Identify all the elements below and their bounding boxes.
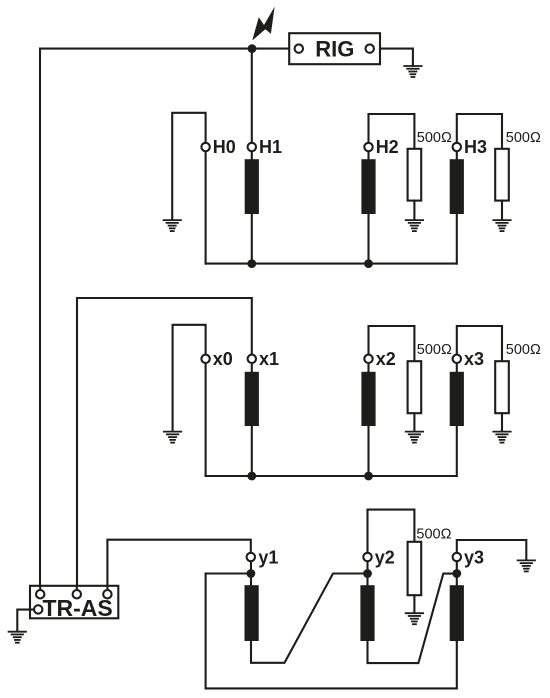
wire: x2 bracket to resistor: [369, 326, 415, 362]
ground: H2 resistor: [406, 220, 423, 231]
winding y2: [360, 585, 374, 641]
terminal: RIG left: [295, 44, 303, 52]
wire: y2 lead and delta link to y3: [368, 561, 453, 663]
node: y3 top: [452, 569, 461, 578]
terminal y3: [453, 553, 461, 561]
resistor 500R (x3): [495, 361, 509, 413]
ground: H3 resistor: [493, 220, 510, 231]
wire: x1 winding lead: [251, 363, 253, 476]
wire: x3 winding lead and bus riser: [456, 363, 458, 476]
wire: x2 winding lead: [367, 363, 369, 476]
wire: y2 bracket to resistor: [368, 510, 415, 543]
wire: x3 bracket to resistor: [457, 326, 502, 362]
wire: x0 bracket to ground: [173, 325, 206, 431]
wire: left riser down to bottom bus: [205, 574, 207, 689]
winding y1: [245, 585, 259, 641]
node: H1 on H bus: [247, 259, 256, 268]
svg-text:y1: y1: [258, 547, 278, 567]
svg-text:500Ω: 500Ω: [416, 527, 451, 543]
ground: x2 resistor: [406, 432, 423, 443]
terminal H2: [364, 143, 372, 151]
svg-text:y3: y3: [464, 547, 484, 567]
resistor 500R (H2): [408, 149, 422, 201]
resistor 500R (x2): [408, 361, 422, 413]
terminal x3: [453, 355, 461, 363]
svg-text:RIG: RIG: [315, 36, 354, 61]
winding x3: [450, 372, 464, 426]
resistor 500R (H3): [495, 149, 509, 201]
terminal H0: [201, 143, 209, 151]
svg-text:x2: x2: [376, 349, 396, 369]
wire: TR-AS left terminal to ground: [17, 610, 35, 631]
wire: x2 resistor to ground: [413, 413, 415, 431]
wire: y2 resistor to ground: [413, 595, 415, 612]
box TR-AS: [30, 586, 118, 619]
ground: x0: [164, 432, 181, 443]
node: x1 on x bus: [247, 472, 256, 481]
node: H2 on H bus: [364, 259, 373, 268]
ground: y2 resistor: [406, 613, 423, 624]
wire: y3 to ground: [457, 540, 527, 560]
svg-text:x0: x0: [213, 349, 233, 369]
terminal: TR-AS 2: [73, 590, 81, 598]
ground: y3: [518, 560, 535, 571]
wire: surge node down to H1: [251, 49, 253, 143]
wire: H0 down to H bus: [205, 151, 207, 264]
terminal: TR-AS 1: [36, 590, 44, 598]
wire: y2 up to bracket: [366, 510, 368, 553]
node: x2 on x bus: [364, 472, 373, 481]
lightning bolt (surge symbol): [252, 7, 274, 41]
winding y3: [450, 585, 464, 641]
wire: H2 bracket to resistor: [369, 114, 415, 149]
wire: H1 winding lead: [251, 151, 253, 264]
svg-text:500Ω: 500Ω: [417, 342, 452, 358]
wire: y1 lead and delta link to y2: [251, 561, 363, 663]
wire: rail1 into TR-AS terminal 1: [39, 586, 41, 592]
wire: H3 bracket to resistor: [457, 114, 502, 149]
svg-text:500Ω: 500Ω: [417, 130, 452, 146]
svg-text:x3: x3: [464, 349, 484, 369]
wire: H row common bus: [206, 263, 457, 265]
node: surge injection junction: [248, 44, 257, 53]
terminal: TR-AS left: [34, 605, 42, 613]
ground: H0: [164, 220, 181, 231]
wire: left rail 2 and x1 feeder: [77, 298, 252, 589]
wire: y1 node to left riser: [206, 572, 251, 574]
wire: H2 winding lead: [367, 151, 369, 264]
terminal: TR-AS 3: [103, 590, 111, 598]
resistor 500R (y2): [408, 542, 422, 595]
wire: x0 down to x bus: [205, 363, 207, 476]
svg-text:x1: x1: [259, 349, 279, 369]
wire: left rail 1 from TR-AS up and top feeder to RIG: [40, 49, 289, 591]
svg-text:H3: H3: [464, 137, 487, 157]
winding H3: [450, 159, 464, 214]
wire: H3 winding lead and bus riser: [456, 151, 458, 264]
terminal y1: [247, 553, 255, 561]
wire: TR-AS terminal 3 to y1: [107, 540, 250, 590]
terminal H1: [248, 143, 256, 151]
terminal H3: [453, 143, 461, 151]
winding H2: [361, 159, 375, 214]
wire: H0 bracket to ground: [172, 113, 205, 220]
wire: x3 resistor to ground: [501, 413, 503, 431]
svg-text:500Ω: 500Ω: [506, 342, 541, 358]
terminal: RIG right: [366, 44, 374, 52]
svg-text:y2: y2: [375, 547, 395, 567]
terminal x2: [364, 355, 372, 363]
wire: y3 winding lead: [456, 561, 458, 641]
wire: y3 bottom around to y1 (bottom bus): [206, 641, 457, 688]
box RIG: [289, 33, 380, 64]
winding H1: [245, 159, 259, 214]
svg-text:H0: H0: [213, 137, 236, 157]
node: y1 top: [247, 569, 256, 578]
wire: x row common bus: [206, 475, 457, 477]
winding x1: [245, 372, 259, 426]
terminal x0: [201, 355, 209, 363]
terminal x1: [248, 355, 256, 363]
wire: RIG to ground: [380, 49, 413, 66]
terminal y2: [363, 553, 371, 561]
svg-text:H2: H2: [376, 137, 399, 157]
ground: RIG right: [404, 66, 421, 77]
node: y2 top: [363, 569, 372, 578]
wire: H2 resistor to ground: [413, 201, 415, 220]
ground: x3 resistor: [493, 432, 510, 443]
ground: TR-AS: [9, 632, 26, 643]
winding x2: [361, 372, 375, 426]
svg-text:H1: H1: [259, 137, 282, 157]
wire: rail2 into TR-AS terminal 2: [76, 586, 78, 592]
svg-text:500Ω: 500Ω: [506, 130, 541, 146]
wire: H3 resistor to ground: [501, 201, 503, 220]
